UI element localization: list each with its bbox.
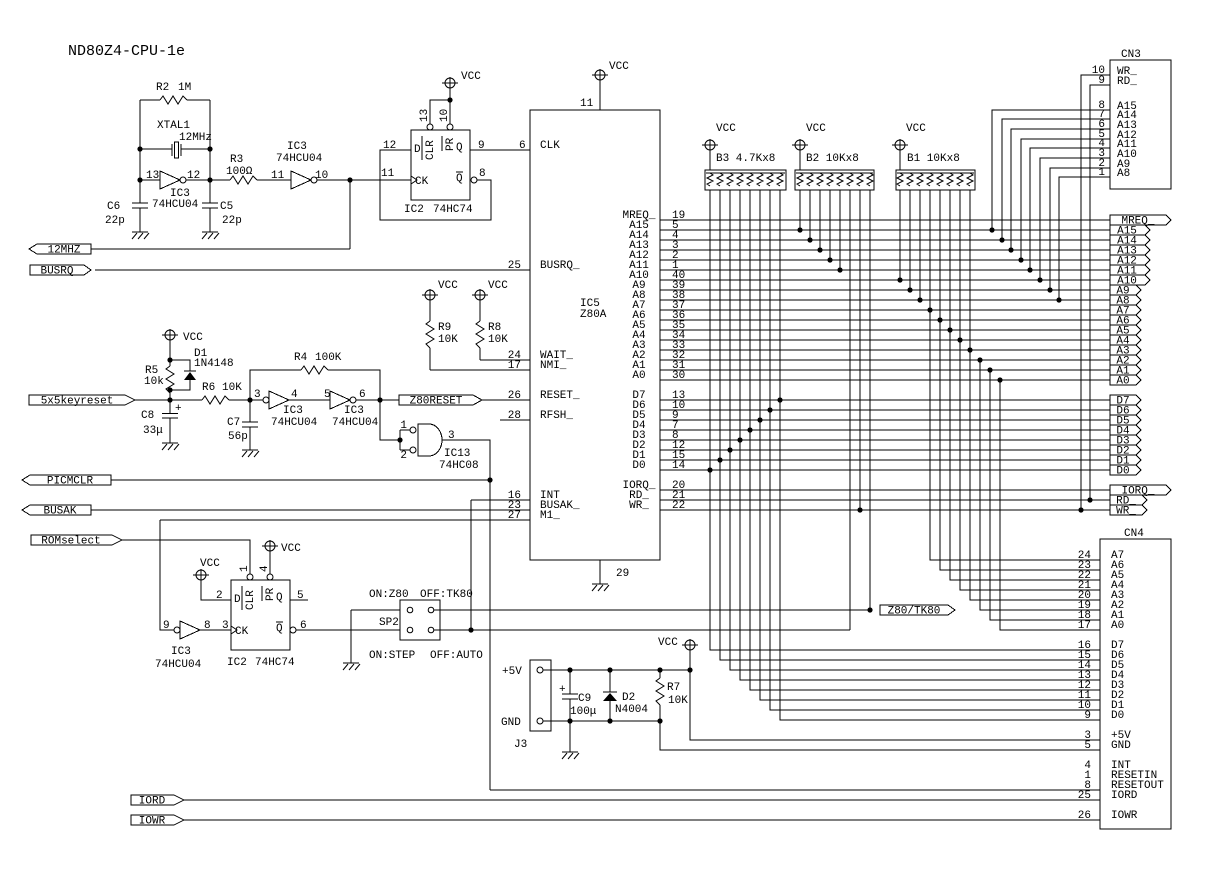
svg-text:4: 4	[259, 565, 271, 572]
node A bus junction x840	[837, 267, 842, 272]
wire inverter IC3a output to node	[186, 179, 210, 181]
wire A7 bus	[660, 309, 1110, 311]
node tag A7	[1110, 305, 1141, 318]
wire R8 column	[479, 299, 481, 360]
node tag D4	[1110, 425, 1141, 438]
svg-text:R3: R3	[230, 154, 243, 166]
resistor R5	[166, 366, 174, 393]
wire R3 to inverter IC3b	[257, 179, 291, 181]
wire B1 pullup/CN4 A column x940	[940, 190, 1100, 570]
svg-text:R7: R7	[667, 682, 680, 694]
node D bus junction x780	[777, 397, 782, 402]
power VCC IC2B D	[193, 558, 220, 581]
wire B3 pullup/CN4 D column x730	[730, 190, 1100, 670]
wire A8 bus	[660, 299, 1110, 301]
svg-text:10K: 10K	[438, 334, 458, 346]
wire B3 pullup/CN4 D column x740	[740, 190, 1100, 680]
wire Z80/TK80 line	[434, 609, 870, 611]
tag IORD	[131, 795, 184, 808]
svg-text:D: D	[414, 144, 421, 156]
svg-text:R6: R6	[202, 382, 215, 394]
wire A3 bus	[660, 349, 1110, 351]
node CN3 A10 junction	[1037, 277, 1042, 282]
node WR pullup junction	[857, 507, 862, 512]
wire B3 pullup/CN4 D column x750	[750, 190, 1100, 690]
resistor R4	[301, 366, 328, 374]
svg-text:A8: A8	[1117, 168, 1130, 180]
node R5 bottom junction	[167, 387, 172, 392]
svg-text:RESET_: RESET_	[540, 390, 580, 402]
svg-text:+: +	[559, 684, 566, 696]
node CN3 A8 junction	[1056, 297, 1061, 302]
node A bus junction x820	[817, 247, 822, 252]
svg-text:CN4: CN4	[1124, 528, 1144, 540]
svg-text:VCC: VCC	[716, 123, 736, 135]
wire Z80 pin 29 ground stub	[599, 560, 601, 584]
tag BUSAK	[22, 505, 91, 518]
wire D4 bus	[660, 429, 1110, 431]
wire A15 bus	[660, 229, 1110, 231]
wire RD_ bus	[660, 499, 1110, 501]
wire INT into Z80	[471, 499, 530, 501]
diode D1 1N4148	[170, 360, 190, 390]
node tag D6	[1110, 405, 1141, 418]
switch SP2 box	[400, 600, 440, 640]
wire SP2 top-left to ground	[351, 610, 408, 663]
node tag MREQ_	[1110, 215, 1171, 228]
svg-text:12MHz: 12MHz	[179, 132, 212, 144]
svg-text:ON:Z80: ON:Z80	[369, 589, 409, 601]
svg-text:Q: Q	[456, 173, 463, 185]
wire B3 pullup/CN4 D column x760	[760, 190, 1100, 700]
svg-text:IOWR: IOWR	[1111, 810, 1138, 822]
ground under C7	[242, 450, 259, 457]
svg-text:WR_: WR_	[1116, 506, 1136, 518]
svg-text:74HCU04: 74HCU04	[332, 417, 379, 429]
node tag D0	[1110, 465, 1141, 478]
node A bus junction x1000	[997, 377, 1002, 382]
wire B1 pullup column x910	[909, 190, 911, 290]
wire INT vertical	[470, 500, 472, 630]
node R5 top junction	[167, 357, 172, 362]
svg-text:D0: D0	[1111, 710, 1124, 722]
wire M1 drop to inverter	[160, 520, 174, 630]
svg-text:Q: Q	[456, 142, 463, 154]
svg-text:6: 6	[359, 389, 366, 401]
wire IC13 input 2	[400, 449, 410, 451]
wire CN3 pin 10 to bus	[1081, 75, 1110, 510]
wire CN4 A column x990	[990, 370, 1100, 620]
wire WAIT from R8	[480, 359, 530, 361]
svg-text:OFF:TK80: OFF:TK80	[420, 589, 473, 601]
node A bus junction x990	[987, 367, 992, 372]
svg-text:74HC74: 74HC74	[255, 657, 295, 669]
wire CN4 A column x980	[980, 360, 1100, 610]
svg-text:5x5keyreset: 5x5keyreset	[41, 396, 114, 408]
node A bus junction x960	[957, 337, 962, 342]
node inverter output junction	[207, 177, 212, 182]
svg-text:C7: C7	[227, 417, 240, 429]
capacitor C9 100u	[569, 670, 571, 752]
svg-text:C9: C9	[578, 693, 591, 705]
node IC2A VCC junction	[447, 97, 452, 102]
node +5V junction x570	[567, 667, 572, 672]
node A bus junction x830	[827, 257, 832, 262]
tag PICMCLR	[22, 475, 111, 488]
svg-text:BUSAK: BUSAK	[43, 506, 76, 518]
wire IC2B Qbar to SP2	[296, 629, 408, 631]
svg-text:74HC08: 74HC08	[439, 460, 479, 472]
node A bus junction x920	[917, 297, 922, 302]
tag IOWR	[131, 815, 184, 828]
svg-text:VCC: VCC	[609, 61, 629, 73]
wire CN3 pin 6 to bus	[1011, 129, 1110, 250]
power VCC IC2A	[442, 71, 481, 89]
wire Z80RESET line	[356, 399, 530, 401]
node A bus junction x950	[947, 327, 952, 332]
node 3 junction	[247, 397, 252, 402]
ground under C5	[202, 232, 219, 239]
wire B2 pullup column x820	[819, 190, 821, 250]
node CN3 A11 junction	[1027, 267, 1032, 272]
wire A1 bus	[660, 369, 1110, 371]
svg-text:SP2: SP2	[379, 617, 399, 629]
wire VCC to R5 node	[169, 339, 171, 366]
wire IC13 input feed	[380, 400, 400, 450]
node tag A13	[1110, 245, 1150, 258]
wire CN3 pin 4 to bus	[1030, 148, 1110, 270]
resistor network B1 10Kx8	[896, 170, 975, 190]
wire D5 bus	[660, 419, 1110, 421]
wire RESETOUT line	[490, 789, 1100, 791]
pin 1 CLR bubble	[247, 574, 253, 580]
svg-text:VCC: VCC	[488, 280, 508, 292]
svg-text:BUSRQ_: BUSRQ_	[540, 260, 580, 272]
svg-text:GND: GND	[501, 717, 521, 729]
wire CN4 A column x1000	[1000, 380, 1100, 630]
wire B2 pullup column x840	[839, 190, 841, 270]
wire A11 bus	[660, 269, 1110, 271]
node A bus junction x930	[927, 307, 932, 312]
svg-text:B3 4.7Kx8: B3 4.7Kx8	[716, 153, 775, 165]
wire B1 pullup column x920	[919, 190, 921, 300]
svg-text:RFSH_: RFSH_	[540, 410, 573, 422]
node A bus junction x910	[907, 287, 912, 292]
wire B1 pullup/CN4 A column x960	[960, 190, 1100, 590]
svg-text:CK: CK	[415, 176, 429, 188]
svg-text:Z80/TK80: Z80/TK80	[888, 606, 941, 618]
wire D0 bus	[660, 469, 1110, 471]
power VCC B3	[702, 123, 736, 151]
svg-text:IORD: IORD	[1111, 790, 1138, 802]
svg-text:9: 9	[1084, 710, 1091, 722]
wire IOWR line	[184, 819, 1100, 821]
svg-text:+: +	[175, 403, 182, 415]
wire +5V rail	[543, 670, 1100, 740]
wire B1 pullup column x900	[899, 190, 901, 280]
and gate IC13 74HC08	[418, 424, 442, 456]
svg-text:1: 1	[400, 420, 407, 432]
node tag A0	[1110, 375, 1141, 388]
wire B2 pullup column x800	[799, 190, 801, 230]
svg-text:XTAL1: XTAL1	[157, 120, 190, 132]
svg-text:10K: 10K	[222, 382, 242, 394]
svg-text:C5: C5	[220, 201, 233, 213]
wire GND rail	[543, 721, 1100, 750]
wire B1 pullup/CN4 A column x970	[970, 190, 1100, 600]
svg-text:74HCU04: 74HCU04	[152, 199, 199, 211]
wire crystal left column to C6	[139, 149, 141, 203]
wire VCC stem IC2A	[449, 88, 451, 100]
node +5V junction x690	[687, 667, 692, 672]
svg-text:D: D	[234, 594, 241, 606]
svg-text:VCC: VCC	[906, 123, 926, 135]
svg-text:ON:STEP: ON:STEP	[369, 650, 416, 662]
svg-text:74HC74: 74HC74	[433, 204, 473, 216]
ground under C9	[562, 752, 579, 759]
wire B3 VCC stem	[709, 150, 711, 170]
power VCC R9	[422, 280, 458, 301]
wire B3 pullup/CN4 D column x770	[770, 190, 1100, 710]
node D bus junction x720	[717, 457, 722, 462]
svg-text:8: 8	[479, 168, 486, 180]
node D bus junction x730	[727, 447, 732, 452]
svg-text:VCC: VCC	[806, 123, 826, 135]
node tag A1	[1110, 365, 1141, 378]
node tag IORQ_	[1110, 485, 1171, 498]
svg-text:56p: 56p	[228, 431, 248, 443]
resistor R2	[160, 96, 187, 104]
node tag D5	[1110, 415, 1141, 428]
wire WR_ bus	[660, 509, 1110, 511]
wire B1 pullup/CN4 A column x950	[950, 190, 1100, 580]
node A bus junction x970	[967, 347, 972, 352]
inverter IC3 gate 11-10	[291, 171, 317, 189]
power VCC B2	[792, 123, 826, 151]
node CN3 A13 junction	[1008, 247, 1013, 252]
wire A12 bus	[660, 259, 1110, 261]
tag BUSRQ	[30, 265, 91, 278]
tag Z80RESET	[399, 395, 482, 408]
wire Z80 pin 11 VCC	[599, 80, 601, 110]
svg-text:A0: A0	[632, 370, 645, 382]
wire IC2A feedback Qbar to D	[380, 150, 491, 220]
wire B3 pullup/CN4 D column x780	[780, 190, 1100, 720]
svg-text:12MHZ: 12MHZ	[47, 245, 80, 257]
wire B2 pullup column x830	[829, 190, 831, 260]
svg-text:A0: A0	[1116, 376, 1129, 388]
wire node to R3	[210, 179, 230, 181]
tag 12MHZ	[29, 244, 91, 257]
node inverter input junction	[137, 177, 142, 182]
wire BUSRQ line	[95, 269, 530, 271]
node D bus junction x760	[757, 417, 762, 422]
svg-text:2: 2	[400, 450, 407, 462]
svg-text:CK: CK	[235, 626, 249, 638]
power VCC IC2B PR	[262, 540, 301, 555]
wire B3 pullup/CN4 D column x710	[710, 190, 1100, 650]
wire A2 bus	[660, 359, 1110, 361]
svg-text:10k: 10k	[144, 376, 164, 388]
tag 5x5keyreset	[29, 395, 135, 408]
wire IC13 output	[442, 440, 490, 790]
wire A9 bus	[660, 289, 1110, 291]
node A bus junction x810	[807, 237, 812, 242]
node GND junction x660	[657, 718, 662, 723]
svg-text:R8: R8	[488, 322, 501, 334]
svg-text:BUSRQ: BUSRQ	[40, 266, 73, 278]
wire B2 pullup column x850 to SP2 net	[849, 190, 851, 630]
node GND junction x570	[567, 718, 572, 723]
wire A4 bus	[660, 339, 1110, 341]
svg-text:10: 10	[439, 109, 451, 122]
node CN3 RD_ junction	[1087, 497, 1092, 502]
node IC13 input junction	[397, 437, 402, 442]
wire R9 column	[429, 299, 431, 370]
wire IORD line	[184, 799, 1100, 801]
svg-text:IC3: IC3	[287, 141, 307, 153]
wire D1 bus	[660, 459, 1110, 461]
ground under C6	[132, 232, 149, 239]
node D bus junction x750	[747, 427, 752, 432]
node crystal left junction	[137, 146, 142, 151]
node CN3 A12 junction	[1018, 257, 1023, 262]
svg-text:J3: J3	[514, 739, 527, 751]
wire B1 pullup/CN4 A column x930	[930, 190, 1100, 560]
node A bus junction x940	[937, 317, 942, 322]
svg-text:IC2: IC2	[227, 657, 247, 669]
svg-text:33μ: 33μ	[143, 425, 163, 437]
svg-text:B1 10Kx8: B1 10Kx8	[907, 153, 960, 165]
svg-text:NMI_: NMI_	[540, 360, 567, 372]
node tag RD_	[1110, 495, 1147, 508]
wire A14 bus	[660, 239, 1110, 241]
wire CN3 pin 3 to bus	[1040, 158, 1110, 280]
wire R2 top loop	[140, 100, 210, 149]
svg-text:VCC: VCC	[281, 543, 301, 555]
node crystal right junction	[207, 146, 212, 151]
pin 4 PR bubble	[267, 574, 273, 580]
svg-text:22p: 22p	[222, 215, 242, 227]
node 12MHZ junction	[347, 177, 352, 182]
connector CN4 box	[1100, 539, 1171, 829]
svg-text:11: 11	[580, 98, 594, 110]
wire R5 bottom	[169, 393, 171, 400]
svg-text:ND80Z4-CPU-1e: ND80Z4-CPU-1e	[68, 43, 185, 60]
power VCC Z80	[592, 61, 629, 81]
ground Z80 pin 29	[592, 584, 609, 591]
svg-text:A0: A0	[1111, 620, 1124, 632]
node tag A9	[1110, 285, 1141, 298]
wire B1 VCC stem	[899, 150, 901, 170]
svg-text:22p: 22p	[105, 215, 125, 227]
node tag D1	[1110, 455, 1141, 468]
wire A13 bus	[660, 249, 1110, 251]
wire 5x5keyreset line	[135, 399, 202, 401]
inverter IC3 gate 3-4	[263, 391, 289, 409]
resistor R3	[230, 176, 257, 184]
svg-text:11: 11	[381, 168, 395, 180]
node tag A3	[1110, 345, 1141, 358]
wire D3 bus	[660, 439, 1110, 441]
node D bus junction x770	[767, 407, 772, 412]
inverter IC3 gate 5-6	[330, 391, 356, 409]
node CN3 WR_ junction	[1078, 507, 1083, 512]
wire inverter 4 to 5	[289, 399, 330, 401]
wire MREQ_ bus	[660, 219, 1110, 221]
pin 6 Qbar bubble	[290, 627, 296, 633]
wire IORQ_ bus	[660, 489, 1110, 491]
svg-text:10K: 10K	[488, 334, 508, 346]
node INT junction	[468, 627, 473, 632]
pin 13 CLR bubble	[427, 124, 433, 130]
wire PR pin 4 to VCC	[269, 551, 271, 574]
inverter IC3 gate 9-8	[174, 621, 200, 639]
wire B2 VCC stem	[799, 150, 801, 170]
svg-text:Z80RESET: Z80RESET	[410, 396, 463, 408]
svg-text:RD_: RD_	[1117, 76, 1137, 88]
wire CN3 pin 7 to bus	[1002, 119, 1110, 240]
node tag A15	[1110, 225, 1150, 238]
svg-text:C6: C6	[107, 201, 120, 213]
svg-text:C8: C8	[141, 410, 154, 422]
svg-text:CLK: CLK	[540, 140, 560, 152]
svg-text:1N4148: 1N4148	[194, 358, 234, 370]
resistor network B3 4.7Kx8	[705, 170, 786, 190]
node tag A2	[1110, 355, 1141, 368]
node CN3 A9 junction	[1047, 287, 1052, 292]
node tag A14	[1110, 235, 1150, 248]
svg-text:WR_: WR_	[629, 500, 649, 512]
svg-text:17: 17	[1078, 620, 1091, 632]
connector CN3 box	[1110, 60, 1171, 189]
wire CN3 pin 9 to bus	[1090, 85, 1110, 500]
cpu IC5 Z80A box	[530, 110, 660, 560]
node tag A10	[1110, 275, 1150, 288]
resistor R9	[426, 321, 434, 348]
svg-text:100Ω: 100Ω	[226, 166, 253, 178]
wire D2 bus	[660, 449, 1110, 451]
power VCC R8	[472, 280, 508, 301]
pin 10 PR bubble	[447, 124, 453, 130]
svg-text:R2: R2	[156, 82, 169, 94]
ground under C8	[162, 443, 179, 450]
svg-text:GND: GND	[1111, 740, 1131, 752]
node tag A11	[1110, 265, 1150, 278]
node A bus junction x980	[977, 357, 982, 362]
wire B2 pullup column x860 to WR net	[859, 190, 861, 510]
svg-text:10K: 10K	[668, 695, 688, 707]
wire A5 bus	[660, 329, 1110, 331]
wire NMI from R9	[430, 369, 530, 371]
flip-flop IC2 74HC74 second half box	[231, 580, 290, 650]
svg-text:Q: Q	[276, 623, 283, 635]
svg-text:4: 4	[291, 389, 298, 401]
clock triangle IC2A	[411, 176, 417, 184]
capacitor C6	[132, 203, 148, 208]
node A bus junction x800	[797, 227, 802, 232]
svg-text:9: 9	[163, 620, 170, 632]
inverter IC3 gate 13-12	[160, 171, 186, 189]
wire VCC stem J3	[689, 650, 691, 670]
node +5V junction x610	[607, 667, 612, 672]
ground SP2 common	[343, 663, 360, 670]
svg-text:74HCU04: 74HCU04	[271, 417, 318, 429]
svg-text:ROMselect: ROMselect	[41, 536, 100, 548]
svg-text:Q: Q	[276, 592, 283, 604]
power VCC R5	[162, 329, 203, 344]
wire CLR pin 13 to VCC	[430, 100, 450, 124]
